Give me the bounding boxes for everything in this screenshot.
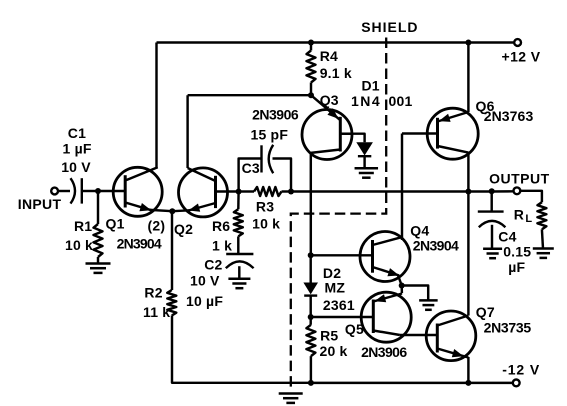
node A input/R1 <box>95 188 101 194</box>
node Q1/Q2 emitters <box>169 208 175 214</box>
resistor R4 <box>307 51 316 83</box>
svg-text:L: L <box>525 213 532 225</box>
wire R5 node to Q5 base <box>311 316 374 318</box>
svg-text:20 k: 20 k <box>320 343 348 359</box>
svg-text:2N3763: 2N3763 <box>484 108 534 124</box>
svg-text:MZ: MZ <box>325 280 346 296</box>
svg-text:2N3906: 2N3906 <box>252 107 299 123</box>
wire D2 anode stub <box>309 255 311 282</box>
svg-text:C1: C1 <box>68 125 86 141</box>
svg-text:C3: C3 <box>242 160 260 176</box>
ground C4 <box>483 248 502 251</box>
capacitor C1 <box>71 178 76 203</box>
svg-text:R5: R5 <box>320 327 338 343</box>
ground C2 <box>228 278 250 281</box>
svg-text:Q1: Q1 <box>106 216 125 232</box>
wire Q4 emitter junction to Q5 emitter <box>400 286 403 294</box>
svg-text:10 k: 10 k <box>65 237 93 253</box>
terminal OUTPUT <box>514 187 521 194</box>
svg-text:9.1 k: 9.1 k <box>320 65 352 81</box>
svg-text:2N3906: 2N3906 <box>361 344 407 360</box>
node C R3/C3 right <box>288 189 294 195</box>
resistor R1 <box>94 224 103 257</box>
svg-text:1N4: 1N4 <box>351 93 381 109</box>
svg-text:µF: µF <box>508 259 525 275</box>
node D2 bottom / Q5 base / R5 <box>308 314 314 320</box>
svg-text:10 k: 10 k <box>252 215 280 231</box>
node R5 bottom bus <box>308 380 314 386</box>
wire C4 node to output terminal <box>492 190 514 193</box>
resistor RL <box>537 202 546 229</box>
svg-text:Q3: Q3 <box>320 92 339 108</box>
node +12V rail / Q6 <box>465 40 471 46</box>
node Q7 emitter bottom bus <box>465 380 471 386</box>
transistor Q6 2N3763 <box>427 108 478 159</box>
wire input to C1 <box>58 190 70 192</box>
svg-text:Q4: Q4 <box>410 223 429 239</box>
wire C3 right stub <box>273 159 292 192</box>
svg-text:11 k: 11 k <box>143 304 170 320</box>
svg-text:0.15: 0.15 <box>503 244 531 260</box>
node C4 tap <box>489 188 495 194</box>
terminal INPUT <box>51 188 58 195</box>
transistor Q4 2N3904 <box>360 232 410 282</box>
ground R1 <box>86 262 111 265</box>
svg-text:Q2: Q2 <box>174 221 193 237</box>
wire node A to Q1 base <box>98 190 125 192</box>
wire emitter node to R2 <box>171 211 173 290</box>
svg-text:R: R <box>514 206 524 222</box>
wire Q2 collector riser <box>186 95 188 168</box>
node OUTPUT <box>465 189 471 195</box>
svg-text:-12 V: -12 V <box>502 362 540 378</box>
svg-text:2361: 2361 <box>323 297 355 313</box>
svg-text:R6: R6 <box>212 218 230 234</box>
svg-text:2N3904: 2N3904 <box>413 237 459 253</box>
wire Q7 emitter to bottom bus <box>467 357 469 383</box>
wire Q1 collector riser <box>155 43 157 168</box>
svg-text:R2: R2 <box>144 285 162 301</box>
svg-text:15 pF: 15 pF <box>251 127 289 143</box>
resistor R2 <box>167 290 176 316</box>
wire Q6 collector to output node <box>467 153 469 192</box>
terminal +12V <box>514 39 521 46</box>
svg-text:R1: R1 <box>74 218 92 234</box>
wire Q2 collector to R4 node <box>188 94 311 96</box>
wire Q5 collector to Q7 base <box>400 334 437 336</box>
wire R2 to bottom bus corner <box>172 316 311 383</box>
capacitor C3 <box>260 145 262 172</box>
capacitor C4 <box>478 210 504 212</box>
wire R1 to ground <box>97 257 99 264</box>
svg-text:2N3735: 2N3735 <box>484 320 532 336</box>
svg-text:Q7: Q7 <box>476 304 495 320</box>
svg-text:Q5: Q5 <box>345 321 364 337</box>
svg-text:+12 V: +12 V <box>502 49 541 65</box>
svg-text:R3: R3 <box>256 199 274 215</box>
transistor Q7 2N3735 <box>426 311 476 361</box>
wire output node to Q7 collector <box>467 192 469 316</box>
svg-text:SHIELD: SHIELD <box>361 19 418 35</box>
transistor Q2 2N3904 <box>179 168 228 217</box>
ground D1 <box>355 167 379 170</box>
svg-text:2N3904: 2N3904 <box>117 236 162 252</box>
bottom bus to -12V terminal <box>311 382 513 384</box>
zener diode D2 MZ2361 <box>303 283 318 295</box>
svg-text:10 µF: 10 µF <box>186 293 223 309</box>
svg-text:1 µF: 1 µF <box>63 140 92 156</box>
svg-text:D1: D1 <box>362 78 380 94</box>
terminal -12V <box>513 380 520 387</box>
svg-text:001: 001 <box>389 93 413 109</box>
resistor R6 <box>234 209 243 236</box>
svg-text:C4: C4 <box>498 229 516 245</box>
svg-text:(2): (2) <box>148 217 166 233</box>
svg-text:INPUT: INPUT <box>18 196 62 212</box>
svg-text:1 k: 1 k <box>212 237 232 253</box>
wire output node to C4 node <box>468 190 491 192</box>
capacitor C2 <box>226 253 253 255</box>
svg-text:OUTPUT: OUTPUT <box>489 170 550 186</box>
wire C3 left stub <box>239 159 262 192</box>
wire D2 cathode to R5 node <box>309 296 311 325</box>
svg-text:C2: C2 <box>204 257 222 273</box>
node R4 top <box>308 40 314 46</box>
ground Q4/Q5 emitters <box>419 299 438 302</box>
resistor R3 <box>254 187 282 196</box>
wire output terminal to RL <box>520 191 542 202</box>
node Q4/Q5 emitters <box>399 283 405 289</box>
node D2 top / Q4 base <box>308 252 314 258</box>
wire node B to R3 <box>239 190 254 192</box>
node R4 bottom / Q3 emitter <box>308 92 314 98</box>
wire Q3 collector drop <box>310 153 312 256</box>
wire Q4/Q5 emitter node to ground <box>402 286 429 301</box>
wire R4 top stub <box>310 43 312 51</box>
main feedback bus node C to output node <box>291 190 468 192</box>
wire R5 bottom stub <box>310 356 312 383</box>
wire R3 to node C <box>282 190 292 192</box>
ground RL <box>533 247 554 250</box>
svg-text:10 V: 10 V <box>190 272 220 288</box>
transistor Q3 2N3906 <box>302 110 352 160</box>
wire node A to R1 <box>97 191 99 224</box>
wire C1 to node A <box>82 190 98 192</box>
shield dashed line <box>291 38 386 390</box>
svg-text:R4: R4 <box>320 48 338 64</box>
wire R6 top stub <box>237 192 240 210</box>
svg-text:10 V: 10 V <box>61 159 91 175</box>
node B Q2 base/R6/C3/R3 <box>236 189 242 195</box>
wire +12V top bus <box>157 41 515 43</box>
diode D1 1N4001 <box>340 134 364 143</box>
ground shield <box>279 392 303 395</box>
transistor Q1 2N3904 <box>113 167 162 216</box>
svg-text:D2: D2 <box>323 265 341 281</box>
wire R4 bottom stub <box>310 83 312 96</box>
wire Q2 base to node B <box>216 190 239 192</box>
wire Q6 emitter to +12V rail <box>467 43 469 113</box>
transistor Q5 2N3906 <box>361 292 411 342</box>
resistor R5 <box>306 325 315 356</box>
wire RL to ground <box>542 229 543 248</box>
wire D2 node to Q4 base <box>311 254 373 256</box>
wire Q6 base lead <box>402 132 438 134</box>
wire Q6 base riser from Q4 collector <box>401 134 403 238</box>
